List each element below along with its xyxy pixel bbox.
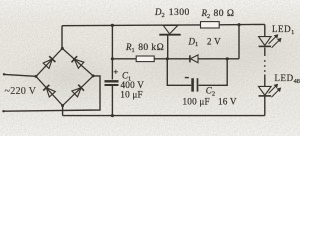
plus sign of C1 [114,70,118,74]
resistor R2 [201,22,220,28]
junction node bridge left [35,75,38,78]
capacitor C1 [105,81,119,85]
bridge diode lower-right [72,85,84,97]
bridge diode upper-left [43,56,55,68]
bridge diode lower-left [43,85,55,97]
wire bridge bottom drop [62,106,64,116]
svg-text:10 μF: 10 μF [120,89,143,99]
junction node bridge top [61,47,64,50]
diode D2 [159,25,180,34]
dots of LED series ellipsis [264,60,266,72]
wire mid rail R1 left lead [112,58,136,60]
wire D1 to node B corner [198,58,239,60]
svg-text:1300: 1300 [169,7,190,18]
capacitor C2 [193,78,198,91]
wire LED top corner [264,24,266,36]
svg-text:100 μF: 100 μF [183,97,210,107]
junction node at C1 bottom [111,114,114,117]
junction node B [226,57,229,60]
wire top rail [62,24,265,25]
wire C1 bottom lead [111,86,113,116]
LED48 [259,84,282,97]
wire C2 loop left [167,59,191,86]
wire bridge edge lower-right [63,76,94,106]
wire LED1 to dots [264,48,266,57]
junction node A [166,57,169,60]
wire bridge edge upper-left [36,48,62,76]
svg-text:16 V: 16 V [218,97,237,107]
wire AC live [4,74,36,76]
resistor R1 [136,56,154,62]
svg-text:2 V: 2 V [207,36,221,46]
wire C1 top lead [111,25,113,79]
bridge diode upper-right [72,56,84,68]
terminal AC neutral [2,110,4,112]
terminal AC live [3,73,5,75]
svg-text:80 Ω: 80 Ω [214,8,235,19]
wire bridge top vertical [61,26,63,49]
minus sign of C2 [185,77,189,79]
zener diode D1 [190,55,198,63]
junction node R1 left tap [111,57,114,60]
svg-text:80 kΩ: 80 kΩ [138,42,164,53]
svg-text:~220 V: ~220 V [5,86,37,97]
junction node bridge bottom [61,104,64,107]
junction node bridge right [92,74,95,77]
junction node at R2 right [237,23,240,26]
LED1 [259,34,282,48]
wire AC neutral [4,76,101,111]
wire bridge edge lower-left [36,76,63,105]
wire R2 right vertical [238,25,240,59]
junction node at C1 top [111,24,114,27]
wire C2 loop right [199,59,228,86]
wire dots to LED48 [264,75,266,87]
wire bridge edge upper-right [62,48,93,76]
wire R1 to node A to D1 [154,58,190,60]
wire D2 cathode drop [167,35,169,59]
wire LED48 to bottom rail [264,96,266,116]
wire bottom rail [63,115,265,117]
